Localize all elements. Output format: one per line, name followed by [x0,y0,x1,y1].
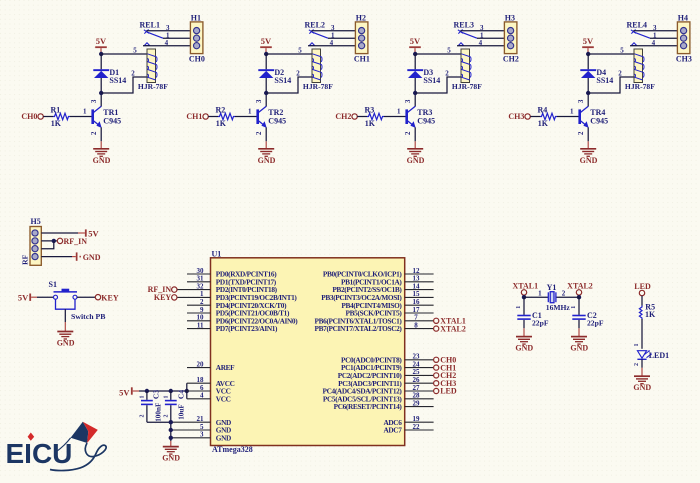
wire AVCC bracket [186,383,188,399]
header H1 [189,14,205,64]
svg-text:SS14: SS14 [423,76,440,85]
relay coil REL2 HJR-78F [303,49,333,91]
port CH2 [434,371,457,380]
capacitor C4 10uF [164,390,186,441]
svg-text:GND: GND [57,339,75,348]
svg-text:XTAL1: XTAL1 [512,282,538,291]
header H3 [503,14,519,64]
wire collector [587,93,589,106]
pin 26 PC3(ADC3/PCINT11) [338,376,433,388]
svg-text:REL4: REL4 [627,20,647,29]
pin 2 PD4(PCINT20/XCK/T0) [187,298,287,310]
svg-text:5: 5 [298,46,302,54]
svg-text:C3: C3 [152,390,161,399]
port XTAL1 [434,317,466,326]
svg-text:1: 1 [248,108,252,116]
svg-text:GND: GND [258,156,276,165]
wire emitter [265,127,267,141]
junction [522,295,526,299]
svg-text:13: 13 [413,275,421,283]
svg-text:GND: GND [162,454,180,463]
pin 20 AREF [187,360,235,372]
pin 12 PB0(PCINT0/CLKO/ICP1) [323,267,434,279]
resistor R4 1K [538,106,557,128]
relay coil REL4 HJR-78F [625,49,655,91]
transistor TR2 C945 [256,99,286,135]
wire 5V rail [139,390,187,392]
junction [99,91,103,95]
svg-text:29: 29 [413,399,421,407]
pin 16 PB4(PCINT4/MISO) [341,298,433,310]
pin 9 PD5(PCINT21/OC0B/T1) [187,306,290,318]
relay coil REL1 HJR-78F [138,49,168,91]
port CH2 [335,112,357,121]
svg-text:5V: 5V [261,36,272,46]
port CH1 [434,363,457,372]
pin 14 PB2(PCINT2/SS/OC1B) [332,282,433,294]
svg-text:5V: 5V [96,36,107,46]
pin 22 ADC7 [383,423,433,435]
svg-text:2: 2 [405,131,412,135]
svg-text:RF: RF [20,254,29,264]
wire contact pin 1 [650,37,677,39]
svg-text:5V: 5V [583,36,594,46]
svg-text:24: 24 [413,360,421,368]
svg-text:4: 4 [652,39,656,47]
EICU logo [6,422,107,471]
svg-text:3: 3 [578,99,585,103]
resistor R2 1K [216,106,235,128]
wire coil pin 2 [588,77,634,93]
switch S1 Switch PB [49,280,106,322]
relay coil REL3 HJR-78F [452,49,482,91]
svg-text:5V: 5V [119,387,130,397]
svg-text:CH3: CH3 [508,112,524,121]
ground [578,328,580,336]
svg-text:2: 2 [445,69,449,77]
svg-text:HJR-78F: HJR-78F [303,82,333,91]
svg-text:2: 2 [131,69,135,77]
pin 15 PB3(PCINT3/OC2A/MOSI) [321,290,433,302]
wire pin 2 [41,240,57,242]
svg-text:CH2: CH2 [503,54,519,63]
wire [208,116,218,118]
svg-text:31: 31 [197,275,205,283]
svg-text:CH0: CH0 [189,54,205,63]
svg-text:Y1: Y1 [547,283,557,292]
svg-text:1K: 1K [51,119,62,128]
svg-text:1K: 1K [645,310,656,319]
svg-text:20: 20 [197,360,205,368]
port LED [634,282,651,295]
header H4 [676,14,692,64]
junction [169,436,173,440]
svg-text:EICU: EICU [6,438,73,469]
svg-text:2: 2 [296,69,300,77]
svg-text:8: 8 [414,321,418,329]
svg-text:1: 1 [83,108,87,116]
svg-text:4: 4 [330,39,334,47]
svg-text:5: 5 [620,46,624,54]
svg-text:H2: H2 [356,14,366,23]
svg-text:17: 17 [413,306,421,314]
pin 1 PD3(PCINT19/OC2B/INT1) [200,290,297,302]
svg-text:2: 2 [164,415,170,418]
svg-text:2: 2 [256,131,263,135]
svg-text:3: 3 [256,99,263,103]
pin 10 PD6(PCINT22/OC0A/AIN0) [187,314,298,326]
port KEY [95,293,119,302]
LED LED1 [637,350,669,360]
power 5V [260,36,272,54]
pin 5 GND [200,423,231,435]
svg-text:23: 23 [413,353,421,361]
capacitor C1 22pF [516,297,549,328]
pin 25 PC2(ADC2/PCINT10) [338,368,434,380]
junction [413,52,417,56]
diode D2 SS14 [258,54,291,93]
ground [64,322,66,332]
svg-text:CH0: CH0 [21,112,37,121]
pin 31 PD1(TXD/PCINT17) [187,275,277,287]
svg-text:H1: H1 [191,14,201,23]
svg-text:10uF: 10uF [178,404,186,420]
svg-text:26: 26 [413,376,421,384]
svg-text:CH3: CH3 [676,54,692,63]
pin 29 PC6(RESET/PCINT14) [334,399,434,411]
power 5V [582,36,594,54]
wire contact pin 1 [477,37,504,39]
svg-text:27: 27 [413,384,421,392]
wire collector [414,93,416,106]
power 5V [95,36,107,54]
port XTAL1 [512,282,538,298]
svg-text:PB7(PCINT7/XTAL2/TOSC2): PB7(PCINT7/XTAL2/TOSC2) [315,324,403,333]
diode D4 SS14 [580,54,613,93]
wire [177,296,211,298]
svg-text:H5: H5 [31,217,41,226]
svg-text:12: 12 [413,267,421,275]
port CH1 [186,112,208,121]
wire coil pin 5 [588,53,634,55]
svg-text:11: 11 [197,321,204,329]
svg-text:GND: GND [93,156,111,165]
power 5V [18,292,37,302]
junction [264,91,268,95]
capacitor C2 22pF [571,297,604,328]
svg-text:1: 1 [397,108,401,116]
wire [147,421,171,423]
svg-text:9: 9 [200,306,204,314]
wire [384,116,406,118]
wire pin 1 [41,232,78,234]
svg-text:2: 2 [562,289,566,297]
wire [177,289,211,291]
pin 3 GND [200,431,231,443]
svg-text:PC6(RESET/PCINT14): PC6(RESET/PCINT14) [334,402,403,411]
wire [70,116,92,118]
wire pin 4 [41,256,72,258]
port LED [434,387,457,396]
pin 11 PD7(PCINT23/AIN1) [187,321,278,333]
svg-text:CH1: CH1 [354,54,370,63]
svg-text:LED1: LED1 [649,351,669,360]
transistor TR1 C945 [91,99,121,135]
svg-text:GND: GND [407,156,425,165]
wire [357,116,367,118]
wire emitter [414,127,416,141]
pin 7 PB6(PCINT6/XTAL1/TOSC1) [315,314,434,326]
svg-text:LED: LED [440,387,457,396]
svg-text:R4: R4 [538,106,548,115]
svg-text:5: 5 [133,46,137,54]
wire [235,116,257,118]
svg-text:ATmega328: ATmega328 [212,445,253,454]
svg-text:S1: S1 [49,280,57,289]
header H2 [354,14,370,64]
wire contact pin 4 [457,45,504,47]
wire coil pin 2 [101,77,147,93]
relay contacts REL2 [305,20,329,45]
diode D3 SS14 [407,54,440,93]
wire contact pin 4 [143,45,190,47]
wire [641,296,643,306]
wire collector [100,93,102,106]
wire coil pin 2 [415,77,461,93]
transistor TR4 C945 [578,99,608,135]
ground [265,141,267,149]
port XTAL2 [434,324,466,333]
junction [169,389,173,393]
junction [413,91,417,95]
svg-text:HJR-78F: HJR-78F [138,82,168,91]
power 5V [78,229,100,239]
junction [169,428,173,432]
pin 27 PC4(ADC4/SDA/PCINT12) [323,384,434,396]
junction [145,389,149,393]
svg-text:HJR-78F: HJR-78F [452,82,482,91]
junction [169,420,173,424]
wire [524,296,548,298]
svg-text:REL3: REL3 [454,20,474,29]
svg-text:22pF: 22pF [532,319,549,328]
pin 8 PB7(PCINT7/XTAL2/TOSC2) [315,321,434,333]
pin 23 PC0(ADC0/PCINT8) [341,353,434,365]
junction [185,389,189,393]
ground [100,141,102,149]
svg-text:3: 3 [91,99,98,103]
wire coil pin 5 [415,53,461,55]
junction [52,239,56,243]
svg-text:5V: 5V [18,292,29,302]
resistor R1 1K [51,106,70,128]
power 5V [119,387,139,397]
wire [641,319,643,349]
wire contact pin 4 [308,45,355,47]
wire contact pin 3 [460,30,504,32]
svg-text:KEY: KEY [154,293,172,302]
wire [556,296,579,298]
svg-text:Switch PB: Switch PB [71,312,105,321]
svg-text:1: 1 [516,306,522,309]
svg-text:1K: 1K [365,119,376,128]
svg-text:1: 1 [164,396,170,399]
svg-text:5: 5 [447,46,451,54]
wire collector [265,93,267,106]
svg-text:VCC: VCC [216,394,231,403]
relay contacts REL3 [454,20,478,45]
svg-text:28: 28 [413,392,421,400]
svg-text:XTAL2: XTAL2 [440,324,466,333]
relay contacts REL4 [627,20,651,45]
wire coil pin 5 [101,53,147,55]
wire pin 3 [41,241,54,249]
svg-text:RF_IN: RF_IN [64,237,88,246]
svg-text:3: 3 [405,99,412,103]
pin 13 PB1(PCINT1/OC1A) [341,275,434,287]
svg-text:5V: 5V [88,229,99,239]
svg-text:U1: U1 [212,249,222,258]
svg-text:10: 10 [197,314,205,322]
svg-text:1K: 1K [216,119,227,128]
wire contact pin 1 [328,37,355,39]
port CH0 [434,356,457,365]
wire coil pin 5 [266,53,312,55]
wire coil pin 2 [266,77,312,93]
svg-text:2: 2 [634,363,640,366]
capacitor C3 100nF [140,390,163,423]
svg-text:14: 14 [413,282,421,290]
port KEY [154,293,177,302]
wire emitter [100,127,102,141]
pin 4 VCC [200,392,231,404]
junction [577,295,581,299]
svg-text:C945: C945 [417,116,435,125]
port RF_IN [148,285,177,294]
svg-text:1: 1 [571,306,577,309]
ground [170,441,172,447]
svg-text:2: 2 [140,415,146,418]
svg-text:22: 22 [413,423,421,431]
svg-text:XTAL2: XTAL2 [567,282,593,291]
port CH3 [434,379,457,388]
svg-text:AREF: AREF [216,363,235,372]
pin 28 PC5(ADC5/SCL/PCINT13) [323,392,434,404]
svg-text:2: 2 [91,131,98,135]
pin 21 GND [197,415,232,427]
svg-text:7: 7 [414,314,418,322]
svg-text:2: 2 [618,69,622,77]
svg-text:1K: 1K [538,119,549,128]
svg-text:30: 30 [197,267,205,275]
wire [641,359,643,368]
svg-text:GND: GND [83,253,101,262]
svg-text:REL2: REL2 [305,20,325,29]
pin 18 AVCC [197,376,235,388]
wire contact pin 3 [633,30,677,32]
power 5V [409,36,421,54]
svg-text:H4: H4 [678,14,688,23]
svg-text:C945: C945 [268,116,286,125]
junction [264,52,268,56]
svg-text:2: 2 [200,298,204,306]
ground [587,141,589,149]
pin 32 PD2(INT0/PCINT18) [197,282,278,294]
junction [586,91,590,95]
svg-text:25: 25 [413,368,421,376]
wire contact pin 1 [163,37,190,39]
svg-text:1: 1 [538,289,542,297]
svg-text:4: 4 [165,39,169,47]
svg-text:2: 2 [578,131,585,135]
ground [523,328,525,336]
diode D1 SS14 [93,54,126,93]
svg-text:19: 19 [413,415,421,423]
svg-text:HJR-78F: HJR-78F [625,82,655,91]
wire contact pin 4 [630,45,677,47]
relay contacts REL1 [140,20,164,45]
svg-text:16MHz: 16MHz [546,303,571,312]
port CH3 [508,112,530,121]
crystal Y1 16MHz [546,283,571,312]
svg-text:15: 15 [413,290,421,298]
svg-text:100nF: 100nF [154,402,162,422]
IC U1 ATmega328 [211,249,405,454]
svg-text:R1: R1 [51,106,61,115]
wire GND bus [171,421,211,423]
wire [530,116,540,118]
svg-text:C945: C945 [103,116,121,125]
wire contact pin 3 [146,30,190,32]
svg-text:GND: GND [515,344,533,353]
svg-text:R3: R3 [365,106,375,115]
wire [37,296,53,298]
svg-text:CH2: CH2 [335,112,351,121]
port CH0 [21,112,43,121]
ground [414,141,416,149]
svg-text:GND: GND [216,433,231,442]
svg-text:R2: R2 [216,106,226,115]
transistor TR3 C945 [405,99,435,135]
resistor R5 1K [639,303,656,320]
svg-text:GND: GND [570,344,588,353]
header H5 [20,217,41,265]
svg-text:ADC7: ADC7 [383,426,402,435]
pin 30 PD0(RXD/PCINT16) [187,267,277,279]
resistor R3 1K [365,106,384,128]
svg-text:1: 1 [140,396,146,399]
svg-text:SS14: SS14 [274,76,291,85]
wire emitter [587,127,589,141]
svg-text:22pF: 22pF [587,319,604,328]
svg-text:C945: C945 [590,116,608,125]
svg-text:SS14: SS14 [109,76,126,85]
svg-text:KEY: KEY [101,293,119,302]
pin 6 VCC [200,384,231,396]
svg-text:C4: C4 [176,390,185,399]
svg-text:H3: H3 [505,14,515,23]
svg-text:16: 16 [413,298,421,306]
pin 17 PB5(SCK/PCINT5) [346,306,434,318]
ground [641,368,643,376]
svg-text:5V: 5V [410,36,421,46]
svg-text:GND: GND [580,156,598,165]
svg-text:1: 1 [570,108,574,116]
svg-text:CH1: CH1 [186,112,202,121]
port XTAL2 [567,282,593,298]
junction [586,52,590,56]
svg-text:PD7(PCINT23/AIN1): PD7(PCINT23/AIN1) [216,324,278,333]
